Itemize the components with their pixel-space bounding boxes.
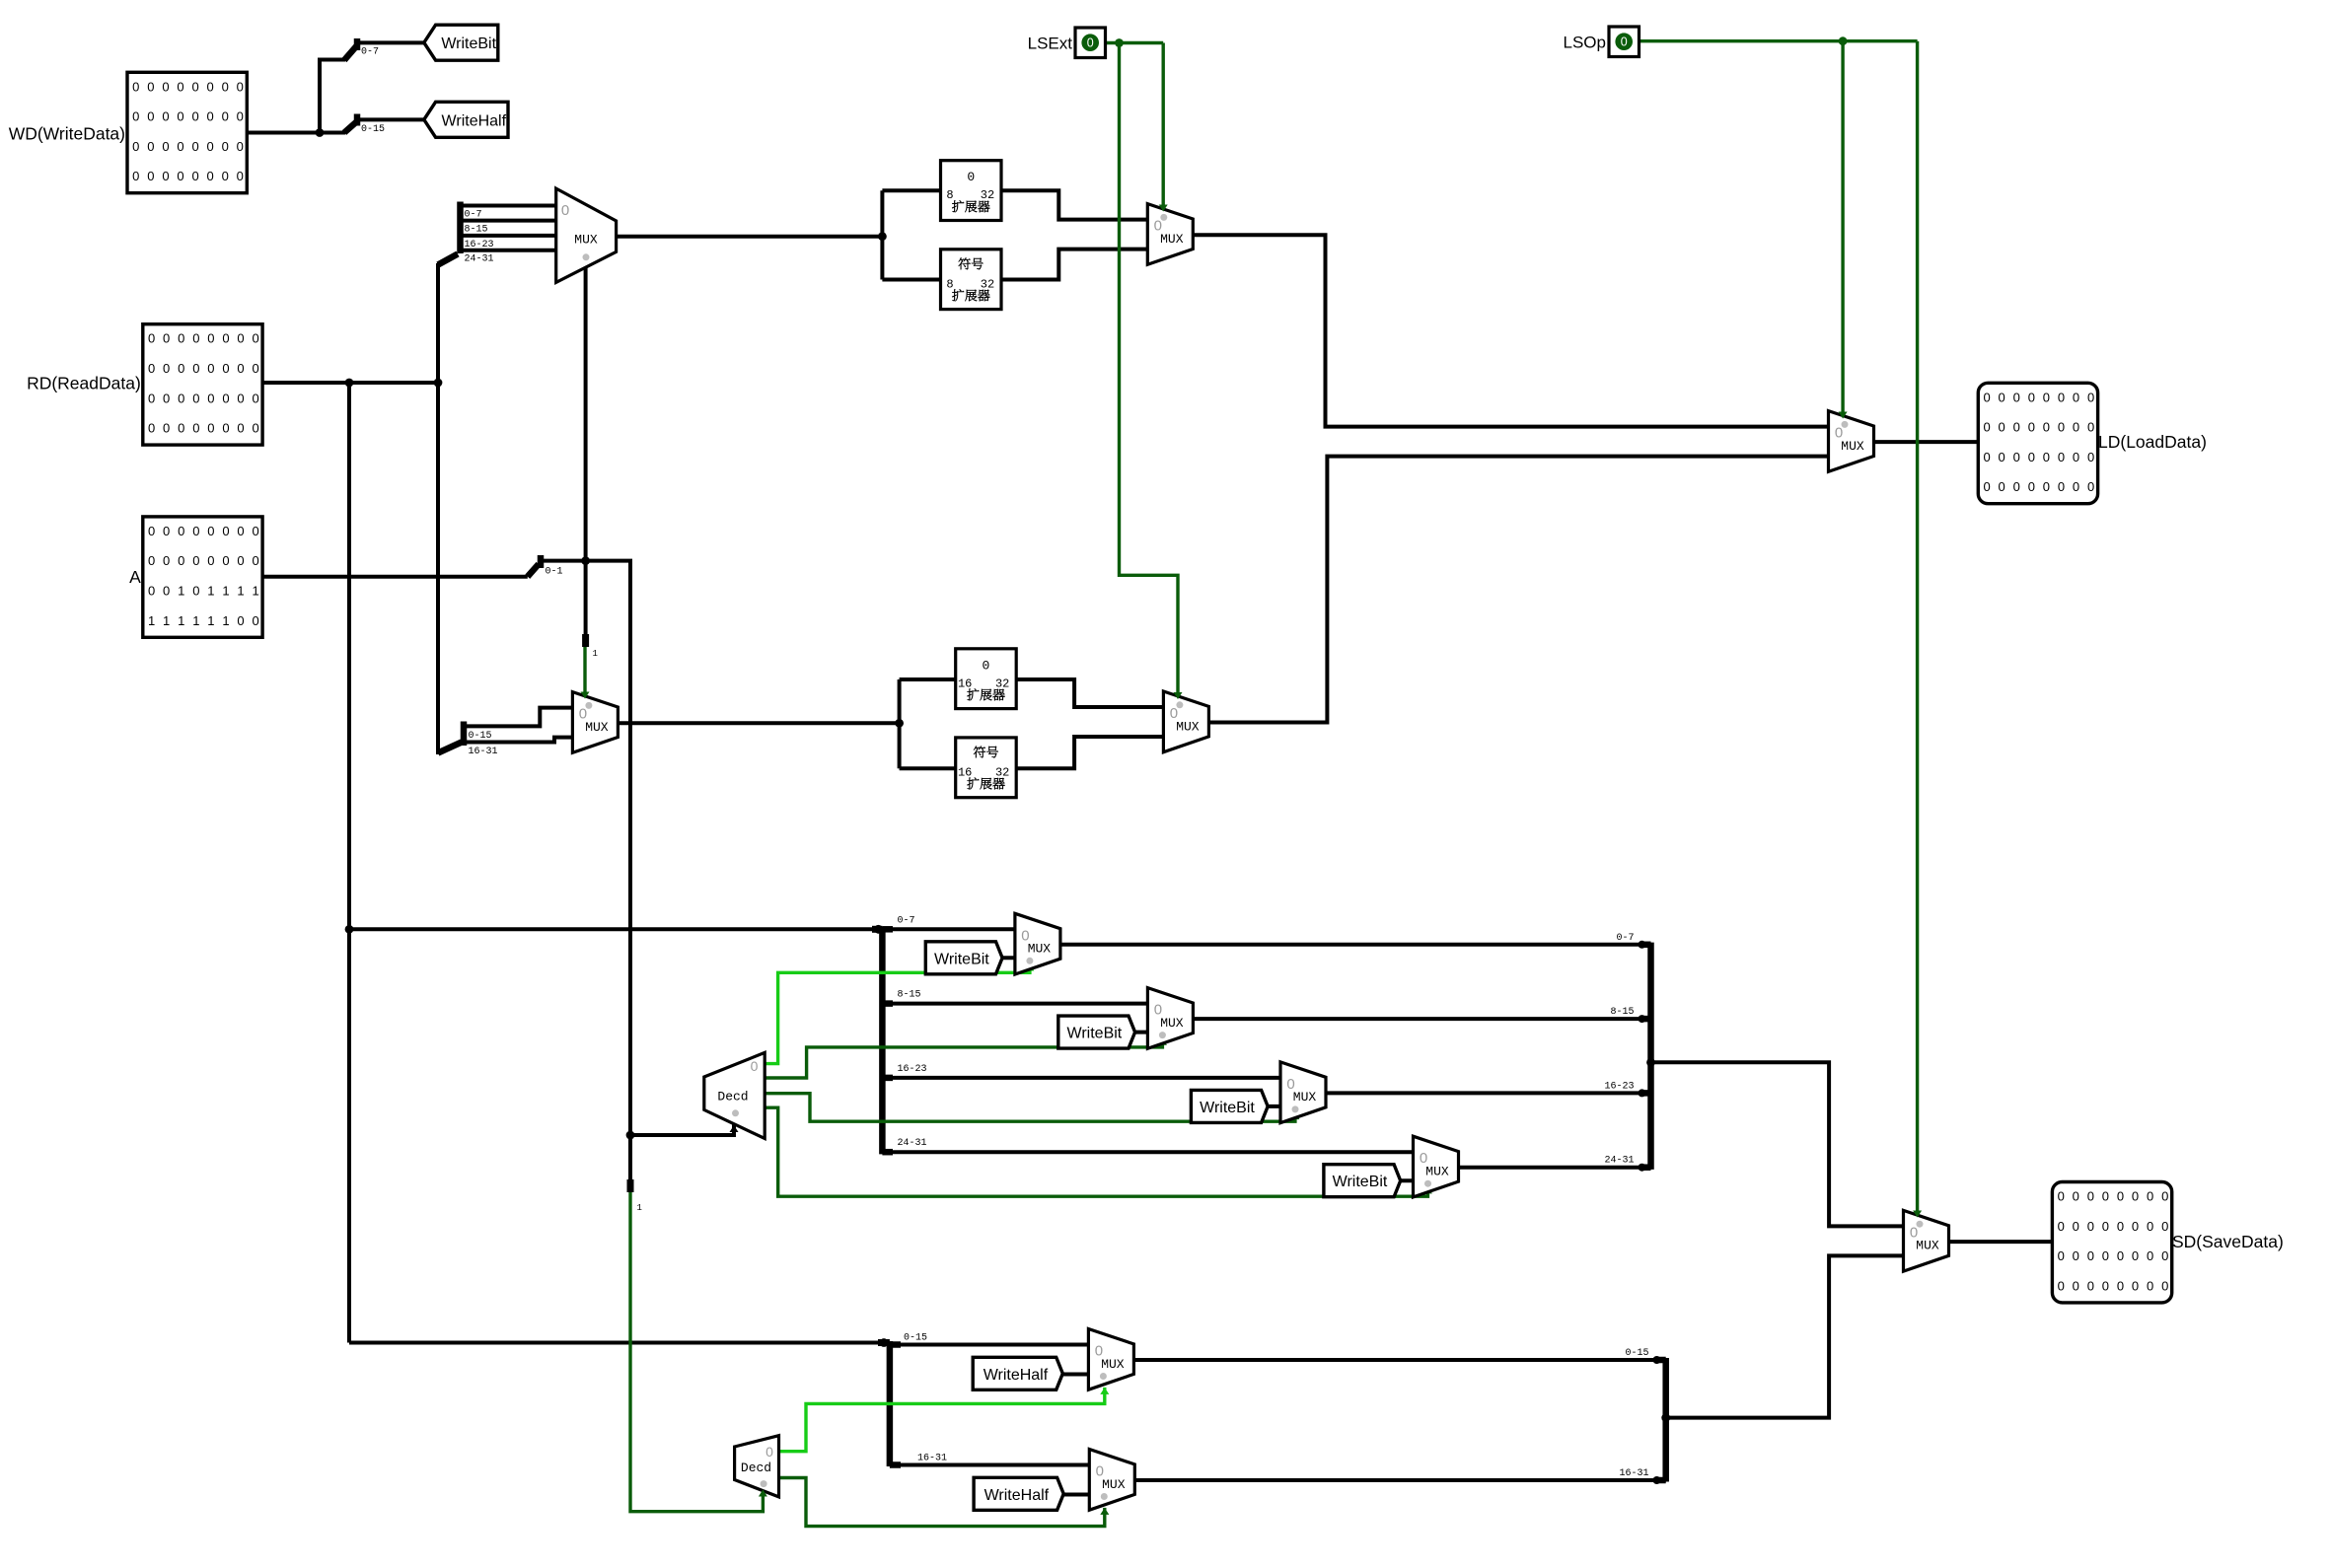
mux U10 save size select [1904,1210,1949,1271]
svg-text:16-23: 16-23 [1604,1081,1634,1092]
svg-text:0: 0 [579,706,587,723]
svg-text:0: 0 [2102,1248,2109,1263]
splitter select bit 1 lower [630,1179,642,1213]
svg-text:0: 0 [2058,1248,2065,1263]
svg-text:LSOp: LSOp [1564,34,1606,52]
wire Decd D1 out0 to WriteBit MUX 0 select [765,964,1030,1064]
svg-text:0: 0 [2117,1189,2124,1204]
wire RD vertical to byte/half rows [347,383,351,1343]
svg-text:16-31: 16-31 [469,747,498,757]
wire WriteBit MUX 2 output to merge splitter [1326,1091,1651,1095]
wire WriteBit tunnel 1 stub [1129,1031,1147,1034]
wire byte lane 2 bus to WriteBit MUX 2 [882,1076,1280,1080]
svg-text:0: 0 [222,109,229,124]
tunnel WriteBit sink 1 [1058,1016,1135,1048]
svg-text:0: 0 [252,391,258,405]
svg-text:0: 0 [2058,1189,2065,1204]
svg-text:0: 0 [2073,1278,2079,1293]
svg-text:0: 0 [2161,1189,2168,1204]
select arrow WriteBit MUX 2 [1290,1112,1299,1119]
svg-text:0: 0 [148,331,155,346]
tunnel WriteHalf source [424,102,508,137]
wire WriteBit MUX 0 output to merge splitter [1060,943,1651,947]
wire LSOp to LD MUX select [1841,41,1844,413]
junction LSExt fanout [1115,38,1124,47]
svg-text:0: 0 [192,391,199,405]
svg-text:0: 0 [192,421,199,436]
svg-text:0-7: 0-7 [1616,933,1634,944]
svg-text:WriteHalf: WriteHalf [984,1487,1050,1504]
svg-text:0: 0 [132,169,139,183]
svg-text:WriteHalf: WriteHalf [442,112,507,129]
svg-text:0: 0 [178,391,184,405]
svg-text:0: 0 [2147,1219,2153,1234]
svg-text:0: 0 [192,331,199,346]
junction WriteHalf splitter main [880,1338,889,1347]
tunnel WriteBit sink 2 [1191,1090,1268,1122]
wire LSExt to MUX U8 select [1120,43,1179,694]
svg-text:0: 0 [163,361,170,376]
input pin A [143,517,262,637]
svg-text:0: 0 [192,361,199,376]
splitter RD halfwords for MUX U5 [438,722,498,758]
svg-text:0: 0 [2028,390,2035,404]
svg-text:0: 0 [207,524,214,538]
svg-text:16-31: 16-31 [1619,1468,1648,1479]
wire select bit to MUX U5 select [583,647,586,693]
svg-text:0: 0 [2043,420,2050,435]
svg-text:WriteBit: WriteBit [1200,1100,1255,1116]
svg-text:1: 1 [237,584,244,599]
mux U15 WriteHalf half 0 [1088,1329,1133,1390]
svg-text:0: 0 [1420,1150,1427,1167]
junction half merge main [1661,1413,1670,1422]
svg-text:0: 0 [1835,425,1843,442]
wire WriteHalf tunnel 1 stub [1063,1493,1090,1497]
wire half lane 1 bus to WriteHalf MUX 1 [890,1463,1089,1467]
svg-text:MUX: MUX [585,720,609,735]
svg-text:MUX: MUX [1425,1165,1449,1179]
svg-text:0: 0 [2073,390,2079,404]
svg-text:0: 0 [148,391,155,405]
svg-text:0: 0 [177,169,183,183]
svg-text:MUX: MUX [1916,1239,1939,1253]
svg-text:32: 32 [981,188,994,202]
svg-text:0: 0 [237,109,244,124]
svg-text:0: 0 [2132,1189,2139,1204]
tunnel WriteHalf sink 1 [974,1477,1063,1510]
svg-text:0: 0 [2013,479,2020,494]
wire select bus to lower splitters [586,561,630,1179]
wire LD MUX output to LD probe [1874,440,1979,444]
svg-text:0-15: 0-15 [1625,1348,1648,1359]
output pin SD(SaveData) [2052,1182,2171,1303]
wire MUX U5 output [618,721,899,725]
svg-text:MUX: MUX [1160,232,1184,247]
svg-text:0: 0 [1154,1002,1162,1019]
mux U4 byte extend select [1147,204,1193,265]
svg-text:32: 32 [995,765,1009,779]
junction halfword extender column [895,719,904,728]
svg-text:WriteBit: WriteBit [1067,1026,1123,1042]
mux U8 halfword extend select [1163,691,1208,752]
svg-text:MUX: MUX [1101,1357,1125,1372]
wire MUX U4 output to LD MUX [1193,235,1828,426]
svg-text:0: 0 [2147,1248,2153,1263]
svg-text:0: 0 [147,169,154,183]
wire WriteBit tunnel 3 stub [1395,1178,1414,1182]
svg-text:0: 0 [1286,1076,1294,1093]
svg-text:0: 0 [2087,1248,2094,1263]
svg-text:WD(WriteData): WD(WriteData) [9,124,125,144]
svg-text:0: 0 [2087,1189,2094,1204]
wire merged byte bus to SD MUX input 0 [1651,1062,1904,1226]
junction Decd select tap [626,1131,635,1140]
svg-text:0: 0 [1170,705,1178,722]
svg-text:0: 0 [207,169,214,183]
svg-text:0: 0 [162,109,169,124]
wire select bit to Decd D2 select [630,1192,763,1512]
svg-text:0: 0 [2161,1278,2168,1293]
wire splitter 0-15 to MUX U5 input 0 [464,708,572,727]
svg-text:0: 0 [222,361,229,376]
svg-text:0: 0 [2058,479,2065,494]
svg-text:MUX: MUX [574,233,598,248]
svg-text:8-15: 8-15 [465,225,488,236]
svg-text:0: 0 [2058,390,2065,404]
svg-text:0: 0 [177,79,183,94]
svg-text:0: 0 [148,524,155,538]
svg-text:0: 0 [163,421,170,436]
svg-text:0: 0 [222,421,229,436]
svg-text:32: 32 [995,677,1009,690]
svg-text:MUX: MUX [1028,942,1052,957]
svg-text:0: 0 [252,613,258,628]
splitter A bits 0-1 [528,555,563,578]
wire Decd D1 out2 to WriteBit MUX 2 select [765,1094,1295,1122]
zero extender U2 8-32 [941,161,1002,221]
svg-text:0: 0 [2147,1189,2153,1204]
svg-text:0: 0 [2028,420,2035,435]
wire byte lane 3 bus to WriteBit MUX 3 [882,1150,1413,1154]
wire RD vertical to halfword splitter [436,383,440,754]
wire to sign extender U7 input [900,766,956,770]
svg-text:0: 0 [163,331,170,346]
wire Decd D2 out0 to WriteHalf MUX 0 select [779,1388,1105,1452]
svg-text:8-15: 8-15 [898,990,921,1001]
svg-text:0-15: 0-15 [361,124,385,135]
svg-text:0: 0 [2073,1189,2079,1204]
svg-text:0: 0 [178,553,184,568]
wire LSExt to MUX U4 select [1161,43,1164,207]
svg-text:0: 0 [2073,1219,2079,1234]
sign extender U7 16-32 [956,738,1016,798]
zero extender U6 16-32 [956,649,1016,709]
svg-text:1: 1 [192,613,199,628]
svg-text:0: 0 [983,658,990,673]
junction byte row tap [345,925,354,934]
wire WriteHalf tunnel 0 stub [1062,1373,1089,1377]
svg-text:0: 0 [2087,450,2094,464]
svg-text:0: 0 [207,361,214,376]
svg-text:0: 0 [148,361,155,376]
svg-text:0: 0 [191,169,198,183]
svg-text:0: 0 [192,524,199,538]
wire halfword row bus to WriteHalf splitter [349,1341,888,1345]
wire half lane 0 bus to WriteHalf MUX 0 [890,1343,1089,1347]
svg-text:16: 16 [958,677,972,690]
svg-text:0: 0 [561,202,569,219]
wire WD output bus [247,131,345,135]
svg-text:0: 0 [1910,1224,1918,1241]
svg-text:0: 0 [237,524,244,538]
wire extender column riser [880,190,884,279]
svg-text:0: 0 [1087,36,1094,50]
wire splitter byte 1 to MUX U1 input 1 [461,219,556,223]
svg-text:MUX: MUX [1841,439,1864,454]
wire LSOp to SD MUX select [1916,41,1919,1212]
svg-text:0: 0 [163,524,170,538]
svg-text:0-15: 0-15 [469,731,492,742]
svg-text:0-7: 0-7 [465,210,482,221]
svg-text:0: 0 [2043,390,2050,404]
junction LSOp fanout [1839,36,1848,45]
svg-text:1: 1 [207,613,214,628]
svg-text:0: 0 [207,331,214,346]
svg-text:0: 0 [237,391,244,405]
wire to zero extender U6 input [900,677,956,681]
splitter RD bytes for MUX U1 [438,202,494,265]
input pin LSExt [1028,28,1106,58]
svg-text:0: 0 [207,139,214,154]
svg-text:0-15: 0-15 [904,1333,927,1344]
svg-text:0: 0 [2043,479,2050,494]
input pin WD(WriteData) [127,72,247,192]
wire WriteHalf MUX 0 output to merge splitter [1133,1358,1665,1362]
wire LSExt output [1106,41,1163,44]
svg-text:0: 0 [1983,420,1990,435]
svg-text:0: 0 [222,391,229,405]
svg-text:0: 0 [132,139,139,154]
select arrow MUX U5 [581,692,590,699]
svg-text:0: 0 [163,553,170,568]
svg-text:0: 0 [967,170,975,184]
svg-text:0: 0 [237,553,244,568]
svg-text:Decd: Decd [741,1461,771,1475]
splitter WD bit 0-7 [344,38,424,60]
svg-text:0: 0 [148,584,155,599]
svg-text:0: 0 [237,79,244,94]
svg-text:0: 0 [2028,479,2035,494]
junction WD fanout [316,128,325,137]
svg-text:0: 0 [132,79,139,94]
tunnel WriteBit source [424,25,498,60]
svg-text:WriteHalf: WriteHalf [984,1367,1049,1384]
svg-text:0: 0 [207,421,214,436]
svg-text:0: 0 [237,139,244,154]
tunnel WriteBit sink 0 [925,942,1002,974]
mux U9 load size select [1829,411,1874,472]
select arrow MUX U4 [1159,205,1168,212]
svg-text:1: 1 [252,584,258,599]
select arrow SD MUX [1913,1211,1922,1218]
input pin RD(ReadData) [143,324,262,445]
wire sign extender U7 output to MUX U8 [1016,737,1163,768]
wire MUX U1 select bus [584,265,588,561]
svg-text:0: 0 [178,421,184,436]
svg-text:0: 0 [207,109,214,124]
svg-text:0: 0 [207,79,214,94]
svg-text:0: 0 [2073,1248,2079,1263]
svg-text:1: 1 [178,613,184,628]
svg-text:8-15: 8-15 [1610,1007,1634,1018]
svg-text:1: 1 [148,613,155,628]
wire MUX U1 output [617,235,883,239]
wire Decd D1 out1 to WriteBit MUX 1 select [765,1038,1162,1078]
wire byte row bus to WriteBit splitter [349,927,877,931]
wire RD riser to MUX splitter [436,263,440,383]
select arrow WriteHalf MUX 0 [1100,1388,1109,1394]
select arrow WriteBit MUX 3 [1423,1186,1432,1193]
select arrow WriteHalf MUX 1 [1100,1508,1109,1515]
wire select bus to bit-1 splitter [584,561,588,637]
svg-text:0-7: 0-7 [361,47,379,58]
splitter WD half 0-15 [344,114,424,136]
wire Decd D2 out1 to WriteHalf MUX 1 select [779,1478,1105,1527]
svg-text:0: 0 [147,109,154,124]
svg-text:0: 0 [2013,450,2020,464]
svg-text:0: 0 [252,361,258,376]
svg-text:0: 0 [2058,1219,2065,1234]
svg-text:0: 0 [191,79,198,94]
splitter WriteBit byte fanout [872,915,927,1154]
select arrow WriteBit MUX 0 [1025,964,1034,971]
mux U14 WriteBit byte 3 [1414,1136,1459,1197]
svg-text:0: 0 [2028,450,2035,464]
svg-text:0: 0 [237,613,244,628]
svg-text:0: 0 [178,331,184,346]
junction RD column B [434,379,443,388]
decoder D1 byte lane [704,1052,765,1138]
wire RD output bus [261,381,438,385]
wire LSOp output [1639,39,1918,42]
select arrow LD MUX [1839,412,1848,419]
wire zero extender U6 output to MUX U8 [1016,679,1163,707]
svg-text:16: 16 [958,765,972,779]
svg-text:0: 0 [162,139,169,154]
svg-text:0: 0 [252,331,258,346]
svg-text:0: 0 [192,584,199,599]
junction WriteBit splitter main [874,925,883,934]
svg-text:0: 0 [1999,479,2005,494]
svg-text:8: 8 [946,277,953,291]
svg-text:0: 0 [178,361,184,376]
svg-text:0: 0 [1621,36,1628,49]
svg-text:0: 0 [2058,420,2065,435]
svg-text:0: 0 [2102,1219,2109,1234]
mux U5 halfword select [572,692,618,753]
svg-text:0: 0 [1154,218,1162,235]
svg-text:24-31: 24-31 [465,254,494,265]
wire sign extender U3 output to MUX U4 [1001,249,1147,280]
svg-text:0: 0 [2087,420,2094,435]
svg-text:0: 0 [148,421,155,436]
svg-text:0: 0 [237,421,244,436]
svg-text:0: 0 [237,331,244,346]
svg-text:0: 0 [178,524,184,538]
wire WriteBit tunnel 2 stub [1262,1105,1280,1108]
wire splitter byte 2 to MUX U1 input 2 [461,234,556,238]
svg-text:0: 0 [2087,390,2094,404]
svg-text:0: 0 [2117,1278,2124,1293]
svg-text:A: A [129,567,141,587]
svg-text:0: 0 [2132,1248,2139,1263]
svg-text:0: 0 [1999,450,2005,464]
svg-text:0: 0 [162,79,169,94]
svg-text:0: 0 [2132,1278,2139,1293]
svg-text:0: 0 [2132,1219,2139,1234]
svg-text:0: 0 [237,361,244,376]
mux U11 WriteBit byte 0 [1015,913,1060,974]
svg-text:SD(SaveData): SD(SaveData) [2172,1232,2284,1251]
svg-text:0: 0 [2102,1278,2109,1293]
wire Decd D1 select [630,1123,734,1135]
svg-text:0: 0 [1096,1463,1104,1480]
svg-text:0: 0 [1983,390,1990,404]
svg-text:0: 0 [237,169,244,183]
svg-text:16-31: 16-31 [917,1454,947,1464]
junction RD column A [345,379,354,388]
tunnel WriteHalf sink 0 [973,1357,1062,1390]
svg-text:0: 0 [147,79,154,94]
svg-text:0: 0 [2161,1248,2168,1263]
svg-text:0: 0 [191,109,198,124]
svg-text:1: 1 [637,1203,642,1213]
wire SD MUX output to SD probe [1949,1240,2053,1244]
wire halfword extender riser [898,679,902,768]
svg-text:0: 0 [177,139,183,154]
svg-text:1: 1 [163,613,170,628]
svg-text:0-1: 0-1 [546,567,563,578]
tunnel WriteBit sink 3 [1324,1165,1401,1197]
svg-text:32: 32 [981,277,994,291]
svg-text:0: 0 [1983,479,1990,494]
output pin LD(LoadData) [1978,383,2097,503]
svg-text:0: 0 [1999,420,2005,435]
svg-text:0: 0 [163,391,170,405]
svg-text:0: 0 [1095,1343,1103,1360]
wire byte lane 0 bus to WriteBit MUX 0 [882,927,1015,931]
svg-text:0: 0 [252,553,258,568]
svg-text:0: 0 [147,139,154,154]
svg-text:0: 0 [2147,1278,2153,1293]
svg-text:0-7: 0-7 [898,915,915,926]
svg-text:0: 0 [148,553,155,568]
select arrow Decd D1 [730,1125,739,1132]
svg-text:0: 0 [2102,1189,2109,1204]
junction extender input column [878,232,887,241]
wire splitter byte 0 to MUX U1 input 0 [461,204,556,208]
svg-text:0: 0 [252,421,258,436]
wire Decd D1 out3 to WriteBit MUX 3 select [765,1107,1427,1196]
svg-text:0: 0 [222,331,229,346]
wire A output bus [261,575,528,579]
mux U12 WriteBit byte 1 [1147,988,1193,1049]
wire WriteBit tunnel 0 stub [996,956,1015,960]
svg-text:0: 0 [132,109,139,124]
wire MUX U8 output to LD MUX [1208,457,1828,723]
svg-text:WriteBit: WriteBit [934,951,989,967]
